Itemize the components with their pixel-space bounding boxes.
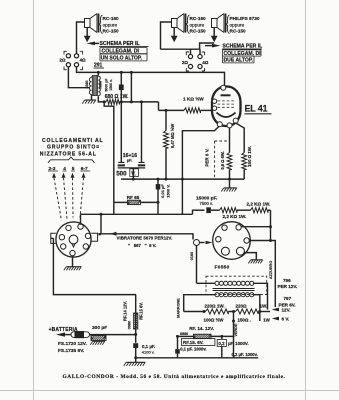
label RF.14 12V vertical (122, 301, 127, 321)
svg-text:220Ω: 220Ω (236, 303, 248, 308)
label 5000pF 1500v (105, 78, 113, 92)
svg-text:1500 v.: 1500 v. (109, 79, 113, 90)
speaker LS1 (single-speaker scheme) (85, 14, 99, 33)
label 680 ohm 1W (105, 94, 129, 100)
svg-text:GALLO-CONDOR - Modd. 56 e 58.: GALLO-CONDOR - Modd. 56 e 58. Unità alim… (63, 374, 286, 380)
svg-text:µF.: µF. (127, 157, 132, 162)
ground arrow under LS1 (84, 28, 91, 43)
wire T1 secondary bottom to B+ rail (98, 96, 105, 103)
resistor R6 2.2Kohm 1W (220, 208, 251, 213)
svg-text:µF. 1000V.: µF. 1000V. (228, 341, 249, 346)
svg-text:12V.: 12V. (282, 308, 291, 313)
connector J1 terminals 2ohm/4ohm (left) (64, 51, 83, 69)
svg-text:4Ω: 4Ω (80, 58, 87, 63)
EL41 bottom pins (217, 118, 238, 128)
svg-text:2Ω: 2Ω (59, 58, 66, 63)
svg-text:7500 v.: 7500 v. (200, 201, 213, 206)
svg-text:V.: V. (131, 171, 136, 177)
svg-text:1W.: 1W. (260, 303, 268, 308)
note DUE ALTOP. (double) (223, 56, 255, 64)
svg-text:0,47 MΩ ½W: 0,47 MΩ ½W (170, 124, 175, 148)
svg-text:RC-160: RC-160 (103, 16, 120, 21)
label 1Kohm halfW (183, 95, 204, 101)
wire middle column (VERDE) (232, 310, 235, 358)
dashed arrow to pin 5 (71, 173, 75, 218)
label 0980 horizontal (180, 332, 188, 336)
EL41 anode bar (221, 94, 231, 96)
choke 0980 vertical (134, 313, 138, 329)
svg-text:2Ω: 2Ω (182, 60, 189, 65)
svg-text:0,6 Ω 6W.: 0,6 Ω 6W. (220, 151, 225, 169)
svg-text:RC-150: RC-150 (103, 29, 120, 34)
note COLLEGAM. DI (single) (100, 48, 147, 55)
svg-text:PER 6 V.: PER 6 V. (204, 148, 209, 166)
note SCHEMA PER IL (double) (222, 44, 262, 50)
svg-text:150 Ω 1W.: 150 Ω 1W. (247, 146, 252, 167)
svg-text:RC-160: RC-160 (190, 16, 207, 21)
svg-text:2,2 KΩ 1W.: 2,2 KΩ 1W. (223, 214, 247, 219)
label PHILIPS 9730 oppure RC-150 (LS3) (230, 16, 260, 33)
wire LS1 to connector (77, 22, 85, 54)
junction dot mid rail (157, 178, 184, 204)
label RF.15 6V vertical (138, 302, 143, 320)
svg-text:4Ω: 4Ω (202, 60, 209, 65)
fuse FS (71, 331, 136, 338)
wire T2 primary left (197, 246, 216, 284)
label EL 41 (245, 104, 272, 114)
terminal circle to rectifier (194, 240, 213, 246)
svg-text:0,01 µF: 0,01 µF (160, 184, 165, 198)
page border bottom (0, 390, 339, 392)
label 0.2uF 1000v second (232, 352, 258, 357)
label AZZURRO (269, 261, 273, 280)
wire right column down (269, 210, 272, 240)
label 500V box (116, 169, 138, 178)
arrow to single-speaker note (87, 42, 100, 46)
vibrator left tab (51, 233, 56, 243)
wire vibrator tab to battery line (51, 238, 136, 294)
transformer T1 secondary winding (98, 76, 100, 97)
svg-text:″ 567 ″ 6 V.: ″ 567 ″ 6 V. (128, 243, 156, 248)
svg-text:796: 796 (283, 278, 291, 283)
vibrator right tab (91, 233, 97, 241)
arrow 6V (272, 317, 290, 322)
rectifier pins (216, 225, 250, 256)
svg-text:FS.1735 6V.: FS.1735 6V. (58, 348, 84, 354)
label 4A (J1) (80, 58, 87, 63)
svg-text:100Ω ½W: 100Ω ½W (204, 317, 225, 322)
svg-text:RF. 14. 12V.: RF. 14. 12V. (189, 326, 214, 331)
wire vibrator right tab (98, 233, 110, 236)
wire LS2 down to bus (161, 22, 172, 49)
svg-text:0980: 0980 (180, 332, 188, 336)
wire RF65 row to lower rail (113, 202, 115, 214)
HT minus rail (121, 178, 244, 180)
label 4A (J2) (202, 60, 209, 65)
svg-text:COLLEGAMENTI AL: COLLEGAMENTI AL (42, 138, 104, 144)
brace LS1 label (100, 15, 103, 34)
svg-text:VERDE: VERDE (234, 323, 238, 337)
arrow to two-speaker note (205, 44, 221, 48)
lower rail (81, 213, 193, 215)
svg-text:RF.14 12V.: RF.14 12V. (122, 301, 127, 321)
dashed box PER 6V (215, 141, 230, 178)
brace LS3 label (227, 15, 230, 34)
label 0.1uF 1000v (180, 347, 206, 352)
wire J1 to T1 primary (68, 67, 89, 88)
label 2A (J2) (182, 60, 189, 65)
ground under T1 (82, 96, 96, 104)
wire T2 primary right (253, 283, 268, 309)
arrow 12V (272, 308, 291, 313)
text COLLEGAMENTI AL GRUPPO SINTONIZZATORE 56-AL (40, 138, 104, 158)
label 0.01uF 1500V (160, 184, 170, 198)
svg-text:0980: 0980 (128, 321, 132, 329)
junction battery to RF choke (134, 295, 137, 336)
ground arrow under LS3 (211, 30, 218, 42)
svg-text:0380: 0380 (85, 81, 89, 89)
label R9 220ohm (236, 303, 268, 308)
svg-text:6 V.: 6 V. (282, 317, 290, 322)
label 0380 left (85, 81, 89, 89)
resistor R8 220ohm 1W (184, 309, 236, 314)
wire to rectifier anode (241, 226, 270, 228)
svg-text:NIZZATORE 56‑AL: NIZZATORE 56‑AL (40, 151, 97, 157)
label 300pF (92, 325, 107, 331)
wire T1 secondary top to bus (97, 71, 100, 76)
label 0160 (190, 252, 194, 260)
resistor R2 1Kohm half-W (184, 108, 212, 113)
svg-text:VIBRATORE 5670 PER12V.: VIBRATORE 5670 PER12V. (117, 236, 173, 241)
svg-text:EL 41: EL 41 (245, 104, 268, 114)
label 796 PER 12V (278, 278, 298, 289)
wire rectifier heater ground (244, 253, 263, 264)
label 0980 vertical (128, 321, 132, 329)
label 16+16 uF (123, 153, 137, 162)
choke RF65 (114, 200, 158, 204)
box RF.15 6V (181, 339, 215, 346)
svg-text:GRUPPO SINTO=: GRUPPO SINTO= (47, 145, 100, 151)
dashed arrow to pin 6-7 (80, 173, 86, 218)
wire EL41 pin to left column (182, 126, 219, 214)
long bus wire J1 to EL41 top cap (77, 67, 225, 86)
svg-text:1500 V.: 1500 V. (166, 184, 171, 197)
svg-text:500: 500 (116, 171, 127, 178)
vibrator center keyway (69, 235, 78, 247)
capacitor C4 15000pF (195, 207, 220, 213)
svg-text:PER 6V.: PER 6V. (279, 302, 296, 307)
page border right (305, 0, 307, 400)
label R10 100ohm halfW (6V row) (203, 310, 225, 322)
resistor R3 0.6ohm 6W (cathode) (227, 128, 232, 181)
T2 secondary winding (215, 293, 254, 297)
rail drop right tab (100, 213, 103, 235)
dashed arrow to pin 4 (62, 173, 68, 219)
svg-text:0,2: 0,2 (218, 341, 225, 346)
wire left column drop (104, 102, 114, 202)
brace LS2 label (187, 15, 190, 34)
svg-text:PHILIPS 9730: PHILIPS 9730 (230, 16, 260, 21)
wire vibrator rail to rectifier (110, 232, 193, 240)
label VIBRATORE line2 (128, 243, 156, 248)
label 2A (J1) (59, 58, 66, 63)
caption GALLO-CONDOR (63, 374, 286, 380)
choke RF14 (194, 334, 234, 338)
svg-text:MARRONE: MARRONE (177, 298, 181, 318)
speaker LS3 (two-speaker scheme) (212, 14, 226, 33)
svg-text:RF 65: RF 65 (127, 195, 140, 200)
label RF.14.12V horizontal (189, 326, 214, 331)
label 291 (94, 63, 105, 69)
svg-text:AZZURRO: AZZURRO (269, 261, 273, 280)
svg-text:1 KΩ ½W: 1 KΩ ½W (183, 95, 204, 101)
speaker LS2 (two-speaker scheme) (172, 14, 186, 33)
svg-text:RF.15 6V.: RF.15 6V. (138, 302, 143, 320)
svg-text:+BATTERIA: +BATTERIA (49, 327, 78, 333)
junction dot C8 on RF14 rail (176, 335, 179, 338)
bus wire speakers LS2/LS3 (161, 48, 200, 50)
svg-text:2,2 KΩ 1W.: 2,2 KΩ 1W. (247, 202, 271, 207)
ground arrow under LS2 (171, 28, 178, 43)
label 15000pF (196, 195, 217, 201)
rectifier socket U1 outline (213, 222, 251, 260)
bottom rail (136, 357, 259, 359)
feedthrough capacitor C5 300pF (90, 336, 106, 345)
label 0.2uF 1000V (228, 341, 249, 346)
svg-text:RF.15. 6V.: RF.15. 6V. (183, 340, 204, 345)
label R7 2.2Kohm (247, 202, 271, 207)
label VIBRATORE (117, 236, 173, 241)
svg-text:PER 12V.: PER 12V. (278, 284, 298, 289)
vibrator socket V1 outline (56, 222, 91, 257)
svg-text:680 Ω 1W.: 680 Ω 1W. (105, 94, 129, 100)
wire rectifier cathode right (249, 239, 275, 307)
svg-text:4100 v.: 4100 v. (142, 349, 155, 354)
resistor R1 680ohm 1W (104, 99, 158, 104)
wire T2 secondary left (184, 295, 215, 312)
capacitor C7 0.2uF box (217, 335, 226, 358)
resistor R9 220ohm 1W (235, 309, 270, 314)
label R8 220ohm (205, 303, 225, 308)
tube V2 EL41 envelope (212, 87, 241, 127)
note UN SOLO ALTOP. (single) (100, 54, 147, 62)
svg-text:FS.1720 12V.: FS.1720 12V. (58, 341, 87, 347)
EL41 side pins (212, 99, 216, 110)
svg-text:RC-150: RC-150 (190, 29, 207, 34)
vibrator ground (64, 256, 82, 271)
svg-text:150Ω .: 150Ω . (238, 317, 251, 322)
transformer T1 primary winding (89, 77, 91, 96)
terminal numbers 2-3 4 5 6-7 (48, 166, 90, 172)
label R11 150ohm (6V row) (238, 312, 271, 323)
note SCHEMA PER IL (single) (99, 41, 149, 47)
svg-text:220Ω 1W.: 220Ω 1W. (205, 303, 225, 308)
EL41 top cap pin (221, 85, 226, 90)
node B+ corner to grid rail (159, 102, 185, 111)
svg-text:oppure: oppure (230, 22, 245, 27)
ground of cathode rail (221, 179, 237, 191)
rail drop to vibrator pin (80, 214, 82, 225)
label 7500v (200, 201, 213, 206)
label 0380 right (99, 81, 103, 89)
resistor R7 2.2Kohm 1W (251, 208, 271, 213)
label RC-160 oppure RC-150 (LS1) (103, 16, 120, 33)
EL41 grid dashes (218, 101, 235, 107)
label 0.1uF 4100v (battery) (142, 344, 155, 354)
EL41 cathode arc (217, 113, 236, 118)
svg-text:0,2 µF. 1000v.: 0,2 µF. 1000v. (232, 352, 258, 357)
vibrator pins (59, 224, 91, 256)
capacitor C8 0.1uF 1000v (175, 336, 180, 357)
T2 core (213, 289, 255, 291)
svg-text:oppure: oppure (190, 22, 205, 27)
dashed arrow to pin 2-3 (52, 173, 62, 221)
svg-text:1W: 1W (263, 317, 270, 322)
resistor R5 0.47Mohm (grid leak) (164, 109, 169, 181)
wire junction riser x131 (130, 71, 133, 104)
svg-text:RC-150: RC-150 (230, 29, 247, 34)
battery rail to RF14 (178, 335, 194, 337)
capacitor C2 16+16uF electrolytic (118, 100, 146, 180)
label R6 2.2Kohm (223, 214, 247, 219)
svg-text:0,1 µF. 1000v.: 0,1 µF. 1000v. (180, 347, 206, 352)
label 0.6 ohm 6W (220, 151, 225, 169)
T2 primary winding (215, 281, 254, 285)
label MARRONE (177, 298, 181, 318)
svg-text:oppure: oppure (103, 22, 118, 27)
label FS.1720 FS.1735 (58, 341, 87, 354)
brace over terminal numbers (48, 157, 95, 163)
transformer T1 core (92, 76, 97, 96)
note COLLEGAM. DI (double) (223, 50, 262, 57)
svg-text:0380: 0380 (99, 81, 103, 89)
svg-text:F0550: F0550 (215, 265, 230, 271)
svg-text:0160: 0160 (190, 252, 194, 260)
wire LS3 down to bus (200, 28, 215, 50)
junction x158 on lower rail (193, 210, 196, 214)
label PER 6V (204, 148, 209, 166)
connector J2 terminals 2ohm/4ohm (right) (186, 49, 204, 71)
svg-text:797: 797 (284, 296, 292, 301)
label VERDE (234, 323, 238, 337)
capacitor C6 0.1uF below battery junction (124, 334, 146, 366)
label 0.47Mohm halfW (170, 124, 175, 148)
label F0550 (215, 265, 230, 271)
battery arrow (56, 332, 71, 336)
resistor R4 150ohm 1W (screen) (236, 123, 247, 179)
label RF 65 (127, 195, 140, 200)
capacitor C1 5000pF (blob) (119, 71, 124, 104)
label 797 PER 6V (279, 296, 296, 307)
wire T2 secondary right (253, 295, 260, 312)
label 150 ohm 1W (247, 146, 252, 167)
capacitor C3 0.01uF 1500V (156, 178, 161, 215)
label RC-160 oppure RC-150 (LS2) (190, 16, 207, 33)
svg-text:300 pF: 300 pF (92, 325, 107, 331)
transformer T2 dashed box (206, 276, 267, 294)
label +BATTERIA (49, 327, 78, 333)
page border left (33, 0, 35, 400)
